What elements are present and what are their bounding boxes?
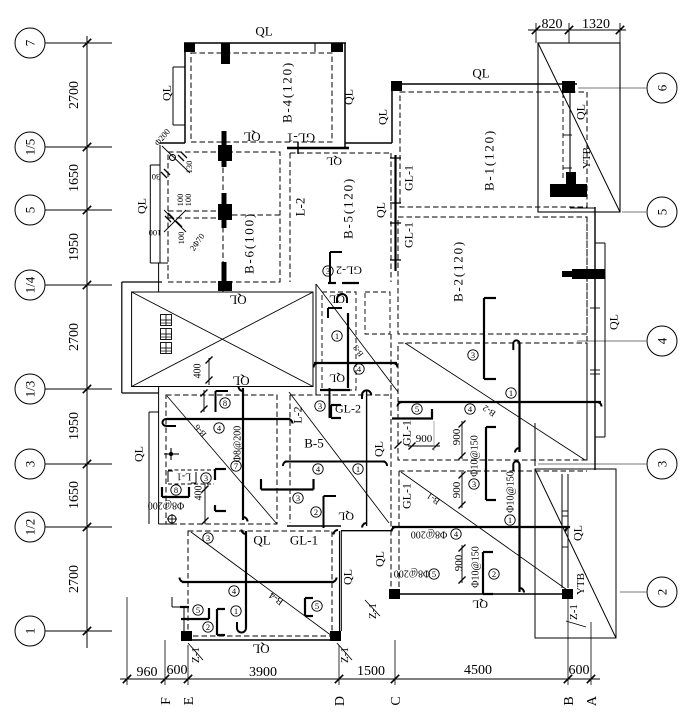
svg-text:2700: 2700 (67, 323, 82, 351)
svg-text:1: 1 (234, 606, 238, 616)
svg-text:QL: QL (229, 292, 246, 307)
svg-text:1/3: 1/3 (23, 381, 38, 398)
svg-text:B-5: B-5 (304, 436, 324, 451)
svg-text:QL: QL (375, 109, 389, 125)
svg-text:600: 600 (167, 663, 188, 678)
svg-text:3: 3 (23, 461, 38, 468)
svg-text:YTB: YTB (581, 147, 593, 169)
svg-text:E: E (182, 697, 197, 706)
svg-text:F: F (159, 697, 174, 705)
svg-text:GL-1: GL-1 (287, 130, 315, 145)
svg-text:900: 900 (451, 428, 463, 445)
svg-text:QL: QL (232, 373, 249, 388)
svg-text:Φ8@200: Φ8@200 (394, 567, 431, 578)
svg-text:5: 5 (655, 209, 670, 216)
svg-text:1500: 1500 (357, 664, 385, 679)
svg-text:3: 3 (296, 493, 300, 503)
svg-text:600: 600 (569, 663, 590, 678)
svg-text:1/5: 1/5 (23, 139, 38, 156)
svg-text:2: 2 (314, 507, 318, 517)
svg-text:QL: QL (253, 533, 270, 548)
svg-text:2700: 2700 (67, 565, 82, 593)
svg-text:4: 4 (655, 337, 670, 344)
svg-text:QL: QL (573, 104, 587, 120)
svg-text:7: 7 (23, 39, 38, 46)
svg-text:QL: QL (606, 314, 620, 330)
svg-text:3: 3 (472, 479, 476, 489)
svg-text:QL: QL (340, 569, 354, 585)
svg-text:B-5(120): B-5(120) (341, 177, 356, 239)
svg-text:100: 100 (149, 228, 162, 238)
svg-text:GL-2: GL-2 (336, 264, 362, 278)
svg-text:1: 1 (23, 628, 38, 635)
svg-text:GL-1: GL-1 (290, 533, 318, 548)
svg-text:5: 5 (432, 569, 436, 579)
svg-text:L-2: L-2 (290, 406, 304, 423)
svg-text:960: 960 (137, 665, 158, 680)
svg-text:6: 6 (655, 84, 670, 91)
svg-text:100: 100 (183, 194, 193, 207)
svg-text:Φ10@150: Φ10@150 (470, 435, 481, 477)
svg-text:QL: QL (252, 641, 269, 656)
svg-text:Z-1: Z-1 (367, 603, 379, 619)
svg-text:30: 30 (152, 172, 161, 182)
svg-text:3: 3 (655, 461, 670, 468)
svg-text:3: 3 (471, 350, 475, 360)
svg-text:5: 5 (415, 404, 419, 414)
svg-text:QL: QL (255, 24, 272, 39)
svg-text:1: 1 (508, 515, 512, 525)
svg-text:900: 900 (451, 481, 463, 498)
svg-text:QL: QL (338, 510, 354, 524)
svg-text:B-2(120): B-2(120) (451, 240, 466, 302)
svg-text:1320: 1320 (582, 17, 610, 32)
svg-text:C: C (389, 696, 404, 705)
svg-text:8: 8 (174, 485, 178, 495)
svg-text:400: 400 (193, 364, 204, 379)
svg-text:QL: QL (570, 525, 584, 541)
svg-text:B-6(100): B-6(100) (242, 212, 257, 274)
svg-text:5: 5 (23, 207, 38, 214)
svg-text:Z-1: Z-1 (568, 604, 580, 620)
svg-text:D: D (333, 696, 348, 706)
svg-text:2: 2 (206, 622, 210, 632)
svg-text:B-1(120): B-1(120) (482, 129, 497, 191)
svg-text:1650: 1650 (67, 164, 82, 192)
svg-text:GL-1: GL-1 (401, 165, 415, 191)
svg-text:1950: 1950 (67, 233, 82, 261)
svg-text:5: 5 (196, 605, 200, 615)
svg-text:QL: QL (373, 202, 387, 218)
svg-text:L-2: L-2 (293, 198, 308, 217)
svg-text:2700: 2700 (67, 81, 82, 109)
svg-text:B: B (562, 696, 577, 705)
svg-text:3: 3 (204, 473, 208, 483)
svg-text:1: 1 (335, 331, 339, 341)
svg-text:2: 2 (492, 569, 496, 579)
svg-text:QL: QL (372, 551, 386, 567)
svg-text:3: 3 (206, 533, 210, 543)
svg-text:1950: 1950 (67, 412, 82, 440)
svg-text:1: 1 (509, 388, 513, 398)
svg-text:3900: 3900 (249, 665, 277, 680)
svg-text:QL: QL (341, 89, 355, 105)
svg-text:1650: 1650 (67, 481, 82, 509)
svg-text:GL-1: GL-1 (399, 483, 413, 509)
svg-text:Φ8@200: Φ8@200 (148, 499, 185, 510)
svg-text:3: 3 (318, 401, 322, 411)
svg-text:QL: QL (326, 155, 342, 169)
svg-text:8: 8 (223, 398, 227, 408)
svg-text:QL: QL (371, 441, 385, 457)
svg-text:Φ8@200: Φ8@200 (411, 528, 448, 539)
svg-text:1/4: 1/4 (23, 276, 38, 293)
svg-text:A: A (585, 695, 600, 706)
svg-text:QL: QL (472, 598, 488, 612)
svg-text:L-1: L-1 (177, 470, 191, 481)
svg-text:QL: QL (131, 446, 145, 462)
svg-text:100: 100 (176, 232, 186, 245)
svg-text:GL-1: GL-1 (401, 222, 415, 248)
svg-text:400: 400 (194, 486, 205, 501)
svg-text:900: 900 (453, 554, 465, 571)
svg-text:QL: QL (329, 372, 345, 386)
svg-text:4500: 4500 (464, 663, 492, 678)
svg-text:QL: QL (159, 85, 173, 101)
svg-text:130: 130 (184, 161, 194, 174)
svg-text:1: 1 (356, 464, 360, 474)
svg-text:B-4(120): B-4(120) (280, 61, 295, 123)
svg-text:2: 2 (655, 589, 670, 596)
svg-text:1/2: 1/2 (23, 519, 38, 536)
svg-text:YTB: YTB (575, 573, 587, 595)
svg-text:Z-1: Z-1 (190, 647, 202, 663)
svg-text:QL: QL (472, 66, 489, 81)
svg-text:Φ10@150: Φ10@150 (471, 546, 482, 588)
svg-text:QL: QL (243, 129, 260, 144)
svg-text:5: 5 (315, 601, 319, 611)
svg-text:GL-2: GL-2 (335, 401, 361, 415)
svg-text:820: 820 (542, 17, 563, 32)
svg-text:Z-1: Z-1 (339, 647, 351, 663)
svg-text:900: 900 (416, 433, 433, 445)
svg-text:QL: QL (134, 198, 148, 214)
svg-text:Φ10@150: Φ10@150 (506, 471, 517, 513)
